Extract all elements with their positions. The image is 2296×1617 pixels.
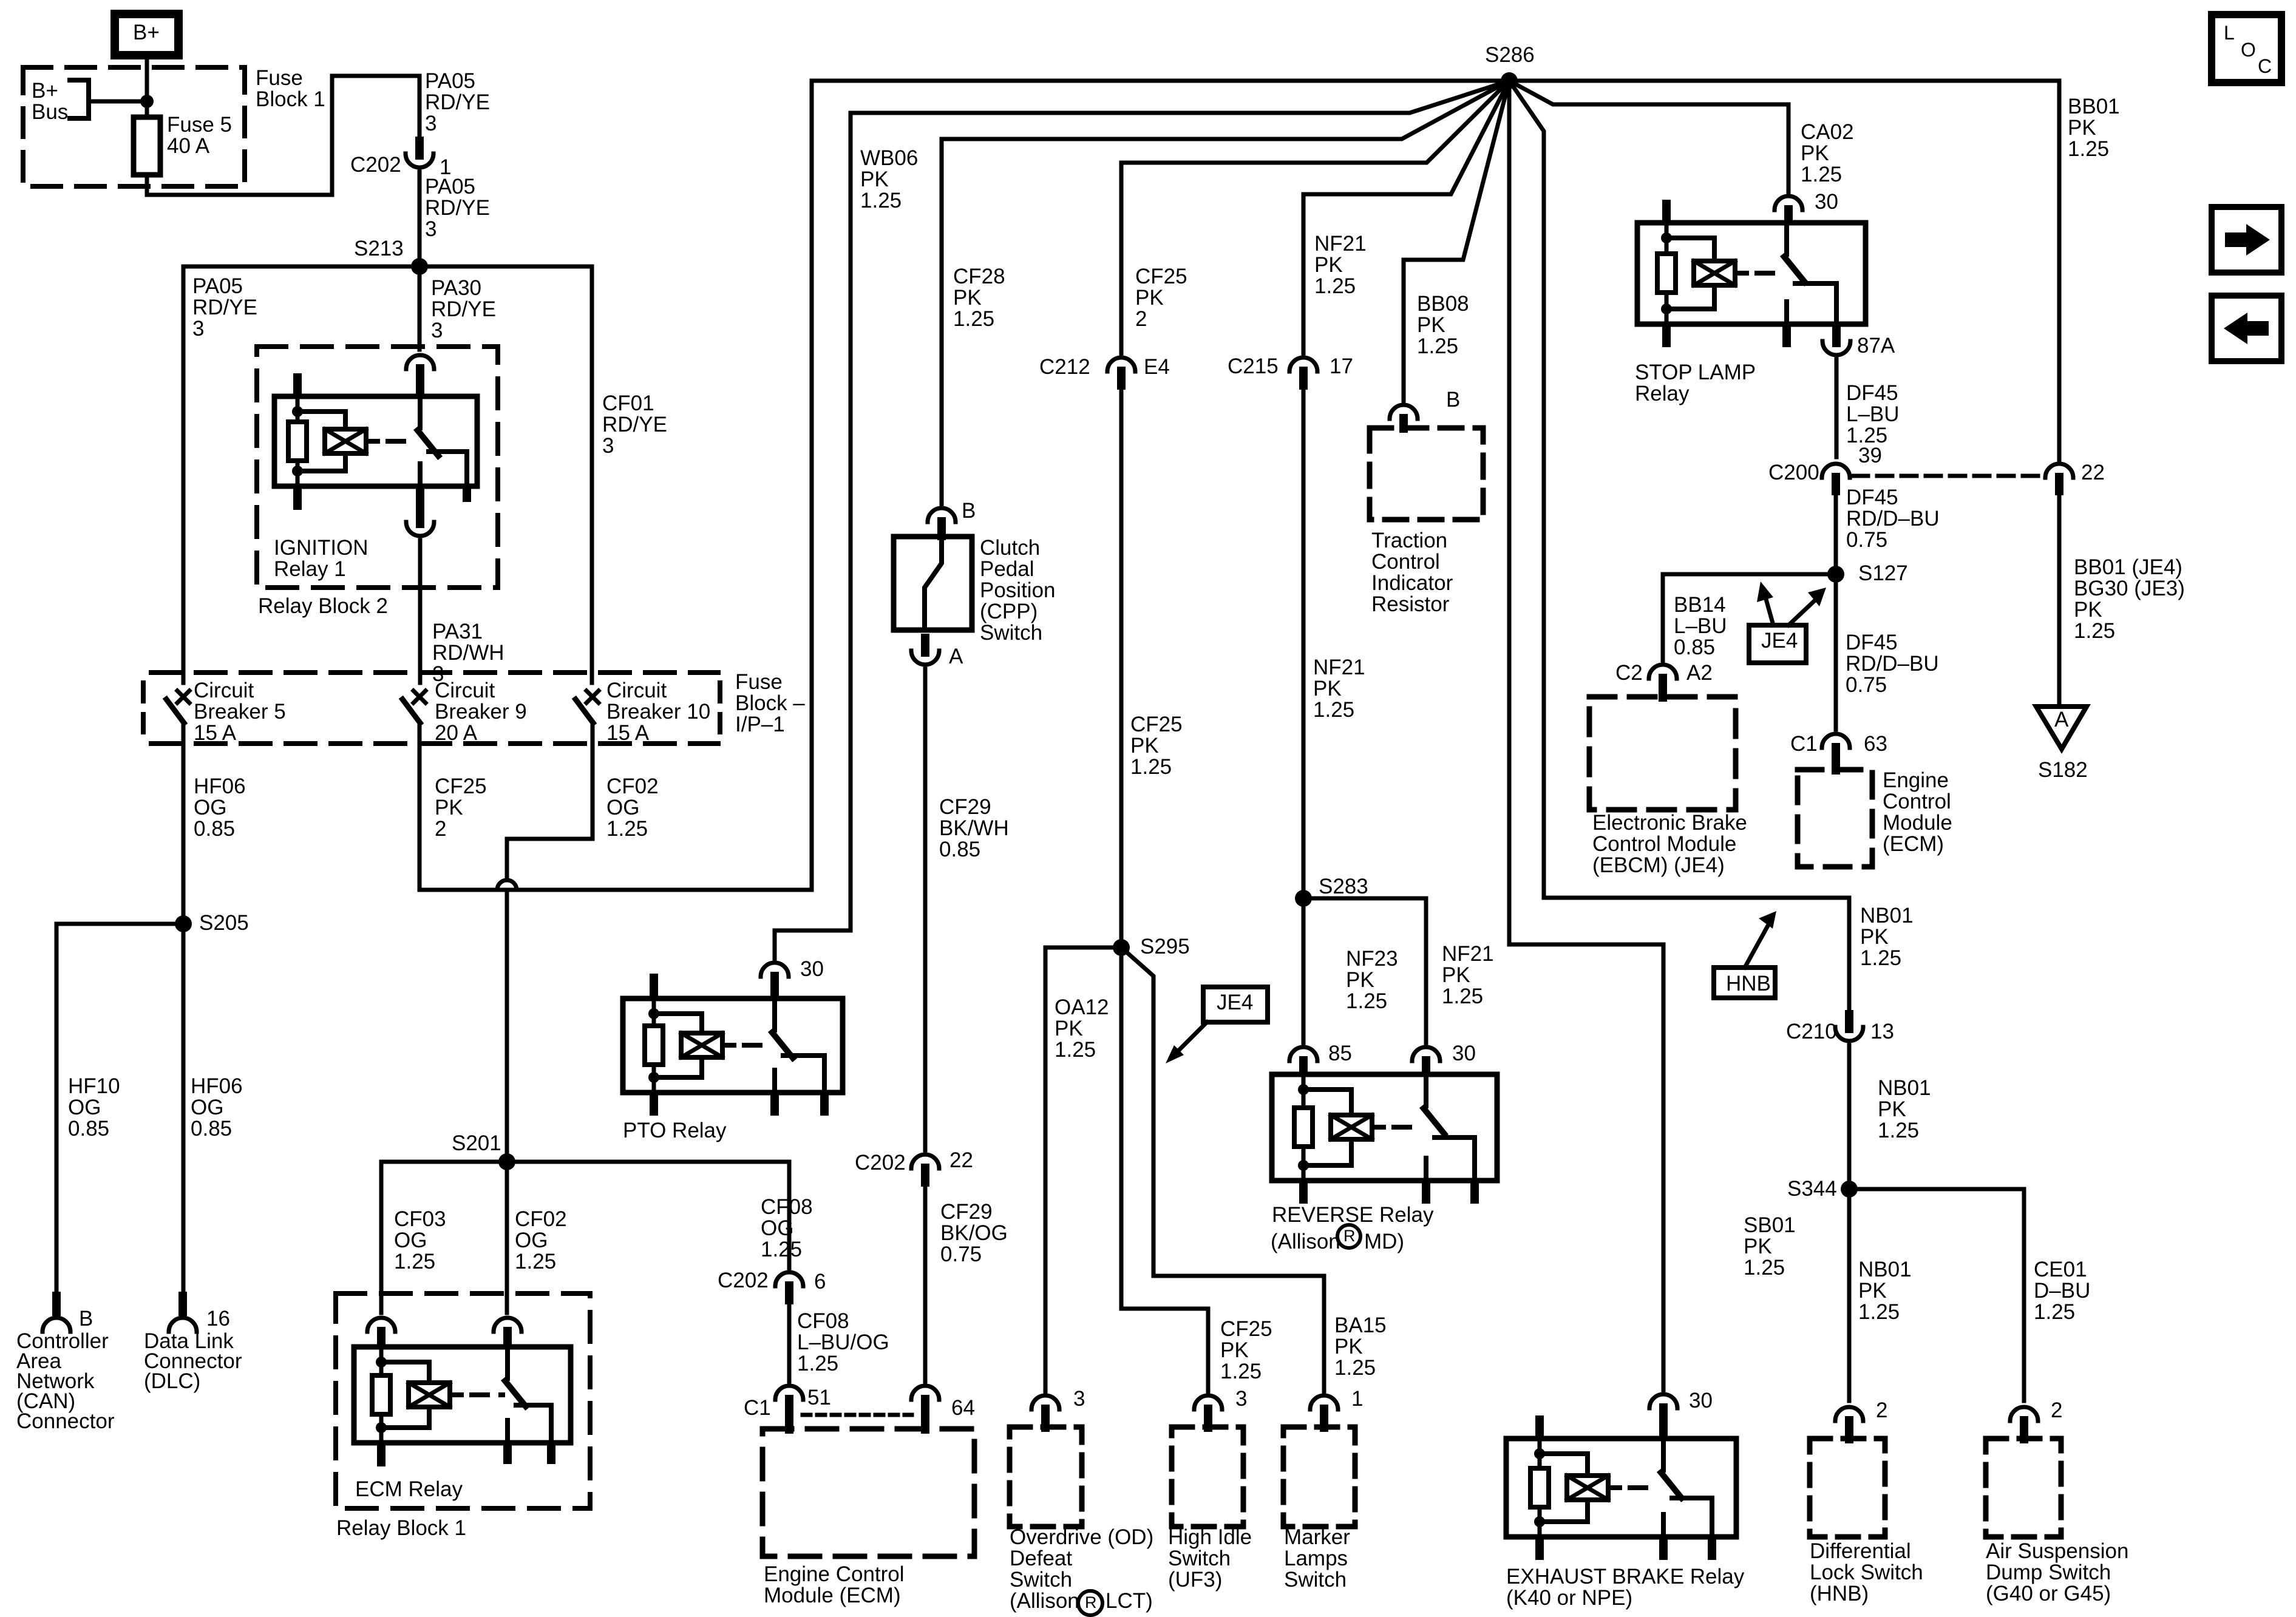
svg-text:3: 3 <box>1073 1387 1085 1411</box>
svg-text:O: O <box>2241 39 2256 61</box>
circuit breaker 5 <box>177 691 189 703</box>
stop lamp relay stubs <box>1662 200 1671 223</box>
Fuse Block I/P-1 dashed outline <box>151 670 718 675</box>
svg-text:HNB: HNB <box>1726 972 1771 995</box>
svg-text:E4: E4 <box>1144 355 1170 379</box>
connector C200 pin 39 <box>1822 464 1850 478</box>
node S201 <box>498 1153 515 1170</box>
svg-text:B+: B+ <box>133 21 160 44</box>
svg-text:30: 30 <box>800 957 824 981</box>
connector marker lamps switch pin 1 <box>1310 1395 1338 1409</box>
differential lock switch dashed box <box>1810 1439 1885 1537</box>
wire OA12 branch <box>1045 947 1121 1391</box>
connector C202 pin 1 <box>415 137 424 160</box>
registered mark (Allison LCT) <box>1078 1591 1102 1615</box>
wire DF45 to S127 <box>1834 494 1838 574</box>
wire CF08 to ECM C1-51 <box>787 1301 792 1381</box>
svg-text:Relay Block 2: Relay Block 2 <box>258 594 388 618</box>
ECM relay coil <box>379 1347 384 1443</box>
right arrow box <box>2212 207 2281 273</box>
connector ECM C1 pin 64 <box>911 1386 939 1400</box>
wire S286 right arm BB01 <box>1509 81 2059 459</box>
svg-text:64: 64 <box>951 1396 975 1420</box>
B+ terminal <box>115 14 178 55</box>
svg-text:C1: C1 <box>744 1396 771 1420</box>
wire CF25 C212 to S295 <box>1119 387 1124 947</box>
wire C202-1 to S213 <box>418 172 422 264</box>
svg-text:MarkerLampsSwitch: MarkerLampsSwitch <box>1284 1525 1350 1592</box>
wire S201 down to ECM relay switch <box>505 1162 509 1313</box>
svg-text:ECM Relay: ECM Relay <box>355 1477 463 1501</box>
wire S201 right to C202-6 <box>507 1162 789 1268</box>
JE4 arrows (right) <box>1765 595 1773 625</box>
svg-text:S283: S283 <box>1319 875 1368 898</box>
svg-text:L: L <box>2224 22 2235 44</box>
right arrow <box>2225 224 2270 256</box>
wire CF25 S295 to high idle <box>1121 947 1208 1391</box>
svg-text:B: B <box>1446 388 1460 412</box>
svg-text:S213: S213 <box>354 237 404 260</box>
svg-text:13: 13 <box>1870 1020 1894 1043</box>
wire S286 to CF25 branch <box>1121 81 1509 353</box>
wire fuse to C202 pin 1 <box>147 76 419 195</box>
connector C212 pin E4 <box>1107 358 1135 371</box>
wire S213 down PA30 <box>418 266 422 350</box>
svg-text:22: 22 <box>949 1148 973 1172</box>
JE4 callout box (right) <box>1749 625 1806 663</box>
dotted link C1 51-64 <box>803 1413 912 1417</box>
wire S213 left arm <box>183 266 419 683</box>
svg-text:A: A <box>949 645 963 668</box>
svg-text:63: 63 <box>1864 732 1887 756</box>
circuit breaker 10 <box>586 691 599 703</box>
node S127 <box>1827 566 1844 583</box>
ECM dashed box <box>763 1429 974 1556</box>
node S344 <box>1841 1181 1858 1198</box>
connector ECM relay 30 <box>494 1318 521 1332</box>
svg-text:C1: C1 <box>1790 732 1818 756</box>
wire HF06 CB5 to S205 <box>182 744 186 924</box>
svg-text:C: C <box>2258 55 2272 77</box>
REVERSE relay switch <box>1424 1074 1428 1106</box>
B+ Bus bracket <box>70 80 89 118</box>
svg-text:TractionControlIndicatorResist: TractionControlIndicatorResistor <box>1371 529 1453 616</box>
relay box: ignition relay <box>274 396 477 486</box>
ECM relay dashed link <box>472 1392 503 1397</box>
svg-text:A2: A2 <box>1686 661 1713 685</box>
wire NB01 to S344 <box>1847 1045 1852 1189</box>
svg-text:C202: C202 <box>350 153 401 177</box>
EXHAUST BRAKE relay coil <box>1538 1439 1542 1537</box>
svg-text:C215: C215 <box>1228 354 1279 378</box>
wire S286 CA02 branch <box>1509 81 1788 192</box>
svg-text:(Allison: (Allison <box>1271 1230 1340 1253</box>
connector ignition relay pin 30 (top) <box>406 355 434 369</box>
ignition relay coil <box>296 396 300 486</box>
connector PTO relay pin 30 <box>761 963 789 977</box>
svg-text:JE4: JE4 <box>1761 629 1798 653</box>
svg-text:B: B <box>79 1307 93 1331</box>
svg-text:87A: 87A <box>1857 334 1895 358</box>
connector C210 pin 13 <box>1845 1010 1853 1033</box>
svg-text:LCT): LCT) <box>1106 1589 1153 1613</box>
Relay Block 1 dashed box <box>336 1293 590 1508</box>
svg-text:2: 2 <box>1876 1398 1887 1422</box>
ignition relay dashed link <box>388 439 415 444</box>
high idle switch dashed box <box>1172 1427 1243 1527</box>
connector traction resistor pin B <box>1390 405 1418 419</box>
ECM relay switch <box>505 1347 510 1378</box>
relay box: STOP LAMP relay <box>1637 223 1866 324</box>
ignition relay NO stub <box>463 486 471 502</box>
connector high idle switch pin 3 <box>1194 1395 1222 1409</box>
svg-text:C200: C200 <box>1768 461 1819 484</box>
svg-text:Relay Block 1: Relay Block 1 <box>336 1516 466 1540</box>
svg-text:30: 30 <box>1815 190 1838 214</box>
connector C215 pin 17 <box>1289 358 1317 371</box>
svg-text:C210: C210 <box>1786 1020 1837 1043</box>
connector ignition relay common (bottom) <box>416 485 424 528</box>
reverse relay stubs <box>1299 1181 1308 1204</box>
CPP switch blade <box>925 537 942 630</box>
connector differential lock switch pin 2 <box>1835 1407 1863 1421</box>
wire DF45 87A to C200 <box>1835 359 1839 457</box>
left arrow <box>2224 313 2269 344</box>
connector reverse relay pin 30 <box>1412 1047 1440 1061</box>
relay box: PTO relay <box>623 998 843 1093</box>
connector CPP pin A <box>921 634 929 657</box>
svg-text:22: 22 <box>2081 461 2105 484</box>
wire B+ Bus to node <box>89 100 147 104</box>
wire CF25 CB9 to S286 <box>419 81 1501 890</box>
relay box: EXHAUST BRAKE relay <box>1506 1439 1736 1537</box>
wire NF21 C215 to S283 <box>1302 387 1306 898</box>
wire S286 to NF21 <box>1303 81 1509 353</box>
svg-text:C202: C202 <box>718 1269 769 1292</box>
svg-text:16: 16 <box>206 1307 230 1331</box>
svg-text:S205: S205 <box>199 911 249 935</box>
PTO relay coil <box>652 998 656 1093</box>
wire S286 to WB06 <box>775 81 1509 958</box>
wire BB14 branch <box>1663 574 1836 660</box>
svg-text:S286: S286 <box>1485 43 1535 67</box>
ECM relay bottom stubs <box>377 1443 385 1466</box>
wire HF10 branch <box>56 924 183 1295</box>
wire S213 right arm CF01 <box>419 266 592 683</box>
wire BB01 to S182 <box>2057 494 2062 707</box>
air suspension dump switch dashed box <box>1986 1439 2061 1537</box>
REVERSE relay dashed link <box>1394 1125 1421 1130</box>
svg-text:S344: S344 <box>1787 1177 1837 1201</box>
svg-text:2: 2 <box>2051 1398 2062 1422</box>
connector C202 pin 22 <box>911 1154 939 1168</box>
wire S286 down SB01 <box>1509 81 1663 1390</box>
svg-text:S182: S182 <box>2038 758 2088 782</box>
node S213 <box>411 258 428 275</box>
traction control resistor dashed box <box>1370 428 1483 520</box>
PTO relay stubs <box>650 974 658 1000</box>
JE4 arrow (left) <box>1172 1022 1207 1057</box>
left arrow box <box>2212 296 2281 361</box>
HNB arrow <box>1745 927 1767 968</box>
dashed link C200 39-22 <box>1853 474 2043 478</box>
STOP LAMP relay dashed link <box>1757 271 1782 276</box>
svg-text:C212: C212 <box>1039 355 1090 379</box>
connector ECM C1 pin 51 <box>775 1386 803 1400</box>
wire S286 to CF28 <box>942 81 1509 504</box>
connector exhaust brake relay pin 30 <box>1649 1394 1677 1408</box>
node S286 <box>1501 72 1518 89</box>
svg-text:Electronic BrakeControl Module: Electronic BrakeControl Module(EBCM) (JE… <box>1592 811 1747 877</box>
wire CF02 CB10 down with hop <box>507 722 593 880</box>
LOC box <box>2212 15 2281 83</box>
wire ignition relay to CB9 <box>418 540 423 683</box>
wire DF45 S127 to C1-63 <box>1834 574 1838 730</box>
connector ECM C1 pin 63 <box>1822 734 1850 748</box>
JE4 callout box (left) <box>1203 987 1268 1022</box>
wire CF29 BK/WH <box>923 669 928 1150</box>
STOP LAMP relay switch <box>1784 223 1789 254</box>
wire S286 to NB01 <box>1509 81 1849 1012</box>
STOP LAMP relay coil <box>1665 223 1669 324</box>
wire S286 to BB08 <box>1404 81 1509 401</box>
svg-text:C2: C2 <box>1615 661 1643 685</box>
connector CAN pin B <box>52 1292 61 1316</box>
wire CF29 BK/OG <box>923 1184 928 1381</box>
connector C202 pin 6 <box>775 1272 803 1286</box>
CPP switch box <box>894 537 972 630</box>
svg-text:85: 85 <box>1328 1042 1352 1065</box>
svg-text:39: 39 <box>1858 444 1882 467</box>
circuit breaker 9 <box>413 691 426 703</box>
svg-text:REVERSE Relay: REVERSE Relay <box>1272 1203 1434 1227</box>
svg-text:C202: C202 <box>855 1151 906 1175</box>
svg-text:3: 3 <box>1235 1387 1247 1411</box>
wire CE01 branch <box>1849 1189 2024 1401</box>
connector stop lamp relay pin 30 <box>1775 196 1802 210</box>
connector overdrive defeat switch pin 3 <box>1031 1395 1059 1409</box>
connector stop lamp 87A <box>1832 323 1841 347</box>
node S283 <box>1295 890 1312 907</box>
svg-text:30: 30 <box>1689 1389 1713 1412</box>
svg-text:30: 30 <box>1452 1042 1476 1065</box>
wire S201 left to ECM relay coil <box>381 1162 507 1313</box>
PTO relay dashed link <box>744 1043 770 1048</box>
PTO relay switch <box>772 998 777 1030</box>
svg-text:MD): MD) <box>1364 1230 1404 1253</box>
connector DLC pin 16 <box>178 1292 187 1316</box>
wire B+ to fuse <box>145 55 149 101</box>
Fuse Block 1 dashed box <box>23 67 245 186</box>
relay box: REVERSE relay <box>1272 1074 1497 1181</box>
connector CPP pin B <box>928 508 956 522</box>
svg-text:R: R <box>1343 1227 1356 1245</box>
ignition relay switch <box>418 396 423 428</box>
EXHAUST BRAKE relay dashed link <box>1630 1485 1659 1490</box>
svg-text:B: B <box>962 499 976 523</box>
svg-text:Air SuspensionDump Switch(G40: Air SuspensionDump Switch(G40 or G45) <box>1986 1539 2128 1605</box>
ECM dashed box (right) <box>1798 770 1872 867</box>
node at fuse top <box>140 95 154 108</box>
connector EBCM C2 pin A2 <box>1649 665 1677 679</box>
registered mark (reverse) <box>1337 1225 1360 1248</box>
overdrive defeat switch dashed box <box>1010 1427 1082 1527</box>
ignition relay coil stubs <box>293 373 302 396</box>
off-page triangle S182 <box>2036 707 2087 749</box>
wire NF23 to reverse relay 85 <box>1302 898 1306 1043</box>
svg-text:S201: S201 <box>452 1131 501 1155</box>
REVERSE relay coil <box>1302 1074 1306 1181</box>
svg-text:EngineControlModule(ECM): EngineControlModule(ECM) <box>1883 768 1952 856</box>
EBCM dashed box <box>1589 697 1736 810</box>
node S295 <box>1113 939 1130 956</box>
svg-text:S295: S295 <box>1140 935 1190 958</box>
EXHAUST BRAKE relay switch <box>1661 1439 1666 1470</box>
svg-text:A: A <box>2054 708 2069 731</box>
node S205 <box>175 915 192 932</box>
svg-text:S127: S127 <box>1858 561 1908 585</box>
fuse 5 <box>145 101 149 117</box>
connector reverse relay pin 85 <box>1289 1047 1317 1061</box>
wire BA15 branch <box>1121 947 1324 1391</box>
relay box: ECM relay <box>354 1347 571 1443</box>
svg-text:R: R <box>1085 1593 1097 1612</box>
svg-text:JE4: JE4 <box>1217 991 1253 1014</box>
connector ECM relay coil (85) <box>367 1318 395 1332</box>
svg-text:17: 17 <box>1330 354 1353 378</box>
Relay Block 2 dashed box <box>257 347 498 588</box>
svg-text:6: 6 <box>814 1270 826 1293</box>
HNB callout box <box>1714 968 1775 998</box>
svg-text:51: 51 <box>807 1386 831 1409</box>
connector air suspension dump switch pin 2 <box>2010 1407 2038 1421</box>
svg-text:1: 1 <box>1351 1387 1363 1411</box>
wire HF06 S205 to DLC <box>182 924 186 1295</box>
svg-text:PTO Relay: PTO Relay <box>623 1119 727 1142</box>
exhaust brake relay stubs <box>1535 1415 1544 1439</box>
marker lamps switch dashed box <box>1283 1427 1355 1527</box>
wire NB01 to diff lock <box>1847 1189 1852 1401</box>
svg-text:Engine ControlModule (ECM): Engine ControlModule (ECM) <box>764 1562 905 1607</box>
connector C200 pin 22 <box>2045 464 2073 478</box>
wire NF21 to reverse relay 30 <box>1303 898 1426 1043</box>
